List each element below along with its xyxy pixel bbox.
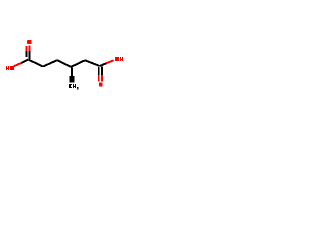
bond C2-C3 (43, 60, 57, 66)
bond C6-OH red half (106, 60, 113, 63)
methyl label CH3: subscript 3 glyph (77, 87, 79, 90)
double bond C1=O1 inner line black half (26, 51, 28, 57)
bond C5-C6 (85, 60, 100, 66)
hydroxyl label OH (right carboxyl): O glyph (115, 57, 119, 61)
methyl label CH3: C glyph (69, 84, 72, 88)
double bond C1=O1 outer line red half (29, 46, 31, 51)
carbonyl O label O1 (left, top) (27, 40, 31, 44)
double bond C1=O1 outer line black half (29, 51, 31, 59)
stereo wedge C4-CH3 (71, 67, 73, 76)
double bond C6=O2 main line black half (98, 67, 100, 75)
double bond C1=O1 inner line red half (26, 46, 28, 51)
methyl label CH3: H glyph (73, 84, 76, 88)
bond C6-OH black half (100, 63, 107, 66)
hydroxyl label HO: O glyph (10, 66, 14, 70)
bond C1-C2 (28, 60, 43, 67)
double bond C6=O2 outer line red half (101, 75, 103, 82)
double bond C6=O2 main line red half (98, 75, 100, 82)
bond C4-C5 (71, 60, 85, 67)
carbonyl O label O2 (right, bottom) (99, 83, 103, 87)
bond C3-C4 (57, 60, 71, 67)
double bond C6=O2 outer line black half (101, 67, 103, 75)
hydroxyl label HO (left carboxyl): H glyph (6, 66, 9, 70)
hydroxyl label OH: H glyph (120, 57, 123, 61)
bond HO-C1 red half (14, 63, 22, 66)
bond HO-C1 black half (22, 60, 29, 63)
